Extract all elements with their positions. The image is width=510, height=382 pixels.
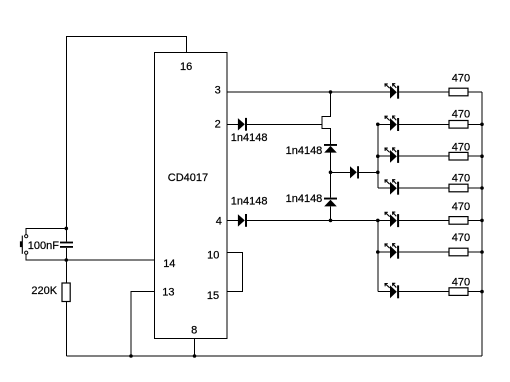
svg-text:1n4148: 1n4148 bbox=[286, 193, 323, 205]
diode D1 1n4148 (pin2) bbox=[238, 118, 247, 131]
wire pin3 row1 bbox=[227, 91, 390, 93]
LED LED1 row1 bbox=[385, 84, 399, 99]
svg-text:1n4148: 1n4148 bbox=[286, 145, 323, 157]
wire button bottom to pin14 bbox=[26, 254, 154, 260]
wire row3 resistor to bus bbox=[468, 155, 482, 157]
resistor R2 470 row2 bbox=[449, 109, 470, 129]
wire cap bottom lead bbox=[65, 248, 67, 260]
wire bottom bus bbox=[66, 355, 482, 357]
wire rows2-4 vertical bbox=[377, 124, 379, 188]
junction dot row2 branch bbox=[376, 123, 380, 127]
wire pin8 bbox=[194, 339, 196, 357]
svg-text:470: 470 bbox=[452, 173, 470, 185]
wire row6 resistor to bus bbox=[468, 251, 482, 253]
wire row2 LED to resistor bbox=[399, 123, 449, 125]
junction dot bus row4 bbox=[480, 186, 484, 190]
svg-text:470: 470 bbox=[452, 232, 470, 244]
wire row7 resistor to bus bbox=[468, 291, 482, 293]
wire right bus bbox=[481, 92, 483, 356]
wire button top bbox=[26, 228, 66, 234]
wire cap top lead bbox=[65, 228, 67, 241]
wire Vdd: cap top to pin16 bbox=[66, 36, 186, 228]
wire D1 to jog bbox=[247, 123, 322, 125]
svg-text:15: 15 bbox=[207, 290, 219, 302]
junction dot row3 branch bbox=[376, 154, 380, 158]
resistor R6 470 row6 bbox=[449, 232, 470, 256]
wire row5 LED to resistor bbox=[399, 219, 449, 221]
wire cap to 220K bbox=[65, 260, 67, 283]
wire row3 LED feed bbox=[378, 155, 390, 157]
wire row4 LED to resistor bbox=[399, 187, 449, 189]
junction dot bus row6 bbox=[480, 250, 484, 254]
svg-text:470: 470 bbox=[452, 73, 470, 85]
wire junction to D5 bbox=[331, 171, 351, 173]
wire D5 to row vertical bbox=[358, 171, 377, 173]
wire row4 resistor to bus bbox=[468, 187, 482, 189]
svg-text:470: 470 bbox=[452, 109, 470, 121]
pushbutton S1 bbox=[20, 235, 28, 255]
resistor R5 470 row5 bbox=[449, 201, 470, 224]
resistor R1 470 row1 bbox=[449, 73, 470, 96]
junction dot row6 branch bbox=[376, 250, 380, 254]
svg-text:470: 470 bbox=[452, 201, 470, 213]
junction dot diode chain mid bbox=[329, 171, 333, 175]
LED LED3 row3 bbox=[385, 148, 399, 163]
junction dot pin13 bottom bbox=[129, 354, 133, 358]
LED LED2 row2 bbox=[385, 116, 399, 131]
junction dot cap top bbox=[65, 227, 69, 231]
junction dot row1 branch bbox=[329, 90, 333, 94]
diode D3 1n4148 (vertical upper) bbox=[324, 144, 337, 153]
wire D4 to row5 bbox=[330, 206, 332, 220]
LED LED7 row7 bbox=[385, 283, 399, 298]
resistor R8 220K bbox=[31, 283, 70, 302]
svg-text:1n4148: 1n4148 bbox=[231, 196, 268, 208]
wire rows5-7 vertical bbox=[377, 220, 379, 291]
wire D2 to row5 LED bbox=[247, 219, 390, 221]
junction dot pin8 bottom bbox=[193, 354, 197, 358]
wire pin10 to pin15 loop bbox=[227, 253, 242, 292]
wire row7 LED to resistor bbox=[399, 291, 449, 293]
wire pin4 to diode D2 bbox=[227, 219, 238, 221]
wire pin13 bbox=[131, 292, 155, 356]
junction dot row5 branch bbox=[376, 219, 380, 223]
wire row3 LED to resistor bbox=[399, 155, 449, 157]
wire row7 LED feed bbox=[378, 291, 390, 293]
svg-text:220K: 220K bbox=[31, 285, 57, 297]
svg-text:4: 4 bbox=[216, 216, 222, 228]
wire pin2 to diode D1 bbox=[227, 123, 238, 125]
wire row1 LED to resistor bbox=[399, 91, 449, 93]
resistor R3 470 row3 bbox=[449, 141, 470, 160]
wire junction to D4 bbox=[330, 172, 332, 197]
wire row2 resistor to bus bbox=[468, 123, 482, 125]
wire jog S bbox=[322, 92, 331, 144]
svg-text:13: 13 bbox=[162, 286, 174, 298]
wire row6 LED feed bbox=[378, 251, 390, 253]
wire row2 LED feed bbox=[378, 123, 390, 125]
svg-text:1n4148: 1n4148 bbox=[231, 132, 268, 144]
diode D5 (horizontal middle) bbox=[350, 166, 359, 178]
junction dot D5 output bbox=[376, 171, 380, 175]
diode D2 1n4148 (pin4) bbox=[238, 214, 247, 227]
svg-text:CD4017: CD4017 bbox=[168, 172, 208, 184]
IC U1 CD4017 body bbox=[155, 53, 228, 339]
junction dot row5 diode chain bbox=[329, 219, 333, 223]
svg-text:470: 470 bbox=[452, 141, 470, 153]
diode D4 1n4148 (vertical lower) bbox=[324, 198, 337, 207]
resistor R7 470 row7 bbox=[449, 277, 470, 296]
junction dot bus row7 bbox=[480, 290, 484, 294]
wire 220K to bottom bus bbox=[65, 302, 67, 357]
svg-text:16: 16 bbox=[180, 61, 192, 73]
wire row1 resistor to bus bbox=[468, 91, 482, 93]
junction dot bus row2 bbox=[480, 123, 484, 127]
svg-text:10: 10 bbox=[207, 250, 219, 262]
wire row6 LED to resistor bbox=[399, 251, 449, 253]
junction dot cap bottom / pin14 bbox=[65, 258, 69, 262]
junction dot bus row3 bbox=[480, 154, 484, 158]
svg-text:100nF: 100nF bbox=[28, 240, 59, 252]
junction dot bus row5 bbox=[480, 219, 484, 223]
svg-text:14: 14 bbox=[163, 258, 175, 270]
LED LED5 row5 bbox=[385, 212, 399, 227]
wire row5 resistor to bus bbox=[468, 219, 482, 221]
wire D3 to junction bbox=[330, 153, 332, 173]
capacitor C1 100nF bbox=[28, 240, 73, 252]
wire row4 LED feed bbox=[378, 187, 390, 189]
svg-text:470: 470 bbox=[452, 277, 470, 289]
resistor R4 470 row4 bbox=[449, 173, 470, 192]
svg-text:3: 3 bbox=[215, 85, 221, 97]
LED LED4 row4 bbox=[385, 180, 399, 195]
LED LED6 row6 bbox=[385, 244, 399, 259]
svg-text:2: 2 bbox=[215, 119, 221, 131]
svg-text:8: 8 bbox=[191, 325, 197, 337]
